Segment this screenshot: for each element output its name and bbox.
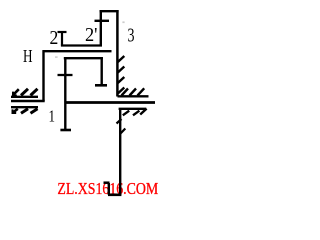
ground hatching left bearing bottom with arrow <box>12 109 37 114</box>
planet lower end tick <box>95 84 107 87</box>
gear 2' tooth line <box>95 20 110 22</box>
svg-text:3: 3 <box>128 25 135 47</box>
link line upper (gear 2 to planet shaft) <box>61 44 102 46</box>
hatch ticks on fixed column <box>117 119 126 134</box>
gear 2 tooth line (T bar) <box>58 31 67 33</box>
bottom bracket top tick <box>104 181 110 184</box>
carrier H arm <box>43 50 112 52</box>
right bearing top line <box>118 95 149 97</box>
gear 1 tooth line <box>58 74 73 76</box>
carrier H shaft (left, into bearing) <box>11 100 45 103</box>
link line lower <box>64 57 103 59</box>
ground hatching right bearing top <box>122 88 145 95</box>
planet shaft lower <box>100 57 102 85</box>
faint artifact dot left of link line <box>55 56 58 58</box>
shaft of gear 1 (vertical) <box>64 57 66 130</box>
svg-text:2': 2' <box>85 25 98 46</box>
ring gear 3 top rim line <box>100 10 119 12</box>
left bearing top line <box>11 96 38 98</box>
bottom bracket left post <box>108 183 110 195</box>
gear 2 stem <box>61 31 63 46</box>
right output shaft <box>65 101 155 104</box>
ground hatching along ring gear 3 rim <box>118 56 125 94</box>
ground hatching right bearing bottom <box>123 109 147 116</box>
fixed column right <box>119 108 121 195</box>
carrier H vertical link <box>42 50 44 101</box>
ring gear 3 rim vertical (fixed) <box>116 10 119 97</box>
svg-text:2: 2 <box>50 28 59 49</box>
svg-text:1: 1 <box>49 107 56 126</box>
faint artifact dot near gear 3 <box>122 21 124 23</box>
svg-text:H: H <box>23 46 33 66</box>
bottom bracket base <box>108 194 121 197</box>
planet shaft upper (gear 2' shaft) <box>100 10 102 47</box>
left bearing bottom line <box>11 106 38 108</box>
right bearing bottom line <box>119 108 147 110</box>
ground hatching left bearing top with arrow <box>13 89 38 96</box>
shaft 1 bottom end tick <box>60 129 71 132</box>
